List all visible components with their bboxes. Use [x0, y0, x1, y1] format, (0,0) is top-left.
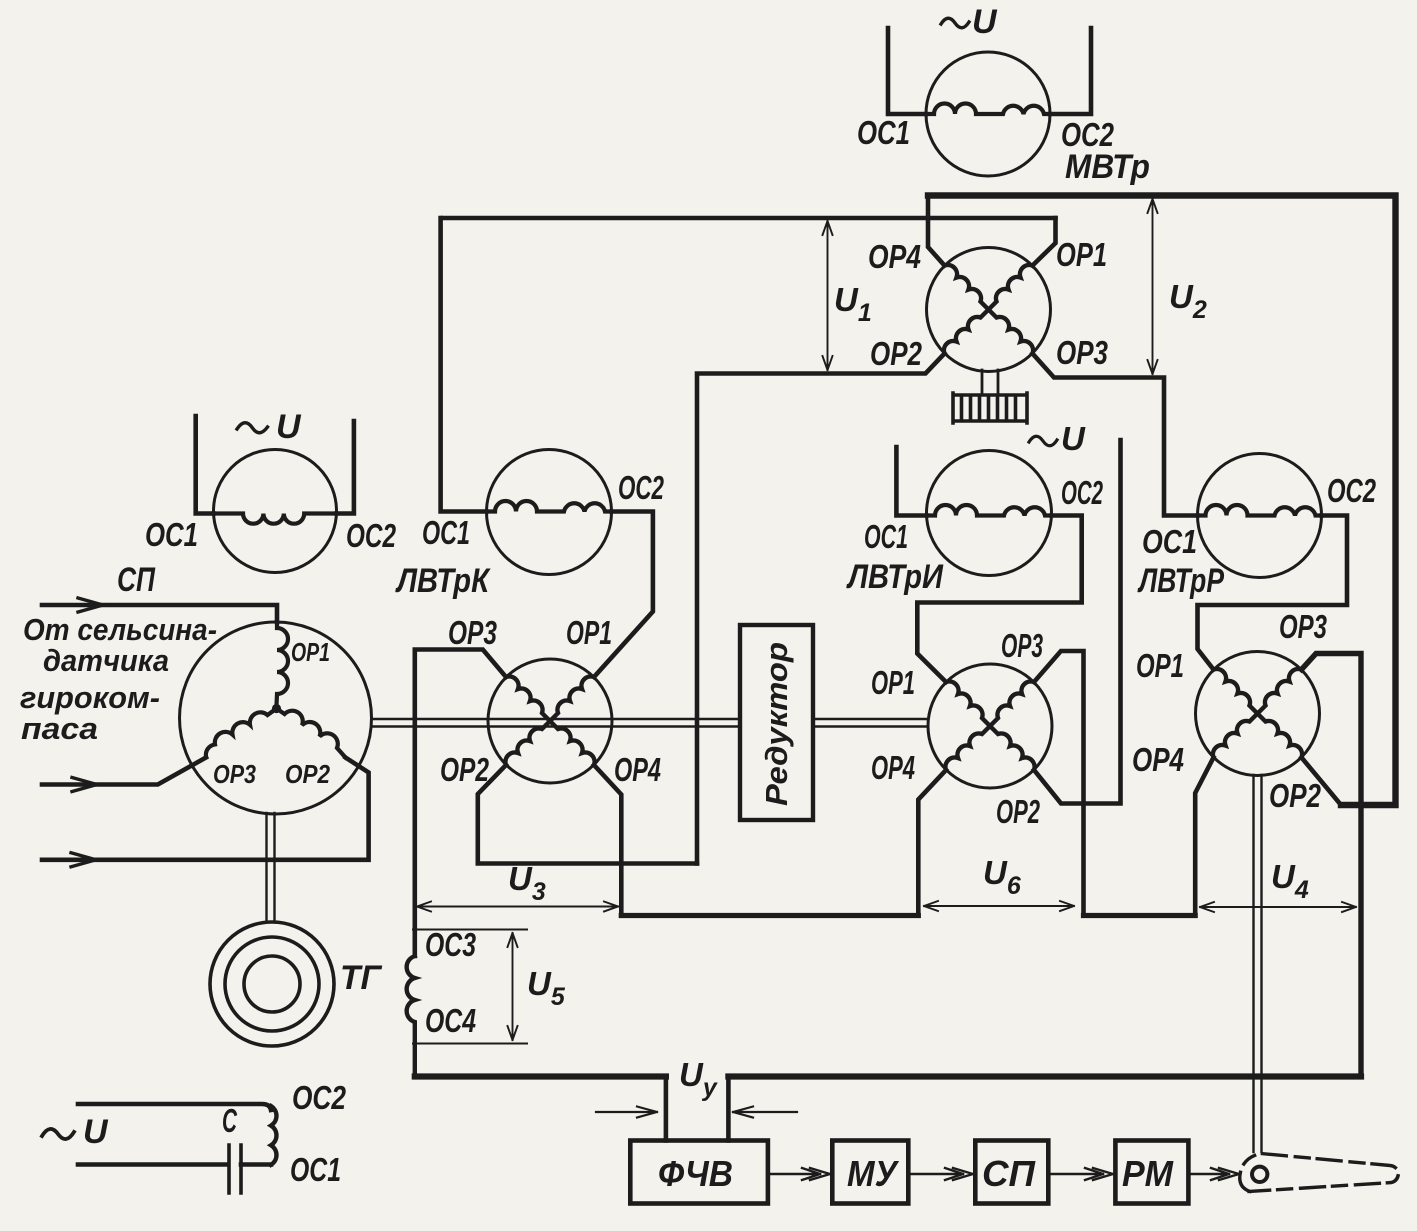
TG middle circle	[225, 937, 319, 1031]
LVTrR rotor crossed windings	[1213, 669, 1302, 758]
svg-text:ТГ: ТГ	[340, 959, 383, 997]
svg-text:ОС1: ОС1	[422, 514, 470, 551]
svg-text:ОР2: ОР2	[870, 335, 922, 372]
wire Uu left vertical into FCHV	[664, 1077, 669, 1141]
svg-text:ОР4: ОР4	[1132, 741, 1184, 778]
wire LVTrI OS2 down to rotor OR1	[917, 516, 1081, 683]
wire MVTr OR1 lead	[1033, 218, 1056, 266]
svg-text:ОР1: ОР1	[566, 614, 612, 651]
arrow Uu left	[596, 1107, 657, 1118]
svg-text:МУ: МУ	[847, 1153, 899, 1194]
TG tachogenerator outer circle	[210, 922, 334, 1046]
LVTrI rotor circle	[928, 664, 1052, 788]
LVTrK stator circle	[487, 450, 612, 575]
mechanical coupling hatched block	[953, 393, 1027, 423]
svg-text:C: C	[222, 1102, 238, 1139]
label ~ supply	[42, 1129, 74, 1139]
svg-text:ОР3: ОР3	[1001, 627, 1043, 664]
dimension U6	[924, 901, 1074, 911]
svg-text:ОР3: ОР3	[1056, 334, 1108, 371]
arrowhead middle input	[72, 778, 97, 792]
svg-text:ОР2: ОР2	[440, 751, 489, 788]
svg-text:ОС2: ОС2	[1061, 474, 1103, 511]
svg-text:ОС1: ОС1	[290, 1151, 341, 1188]
wire Uu right vertical into FCHV	[726, 1077, 731, 1141]
svg-text:ЛВТрИ: ЛВТрИ	[845, 558, 944, 596]
MVTr stator winding OS1-OS2	[926, 104, 1050, 115]
svg-text:ОР4: ОР4	[868, 238, 921, 275]
LVTrI stator circle	[927, 451, 1052, 576]
TG inner circle	[244, 956, 300, 1012]
svg-text:Редуктор: Редуктор	[759, 642, 794, 806]
wire bottom link LVTrI OR3 to LVTrR OR4	[1084, 913, 1196, 918]
LVTrR stator circle	[1198, 454, 1322, 578]
arrow FCHV to MU	[768, 1168, 830, 1180]
tick U5 bottom reference	[413, 1043, 527, 1045]
LVTrR stator winding OS1-OS2	[1198, 505, 1322, 516]
dimension U2	[1148, 199, 1158, 374]
arrowhead bottom input	[71, 853, 96, 867]
svg-text:ОС3: ОС3	[425, 926, 476, 963]
wire supply bottom to capacitor	[78, 1162, 227, 1167]
svg-text:ОС2: ОС2	[618, 469, 664, 506]
svg-text:От сельсина-: От сельсина-	[23, 612, 217, 647]
winding OS3-OS4 on left vertical	[407, 956, 415, 1077]
rudder pivot circle	[1252, 1167, 1267, 1182]
wire selsyn input middle to OR3	[42, 758, 206, 785]
MVTr stator circle	[926, 52, 1050, 176]
dimension U1	[823, 221, 833, 370]
tick U5 top reference	[413, 929, 527, 931]
wire bottom link LVTrK OR4 to LVTrI OR4	[621, 913, 918, 918]
arrow Uu right	[733, 1107, 797, 1118]
selsyn OR3 winding	[206, 709, 277, 757]
svg-text:паса: паса	[21, 711, 98, 746]
label ~U LVTrI	[1029, 420, 1086, 457]
wire LVTrK OS1 from U1-level line	[441, 218, 487, 512]
wire MVTr OS2 supply bracket	[1050, 28, 1091, 114]
wire left stator OS1 bracket	[196, 416, 214, 514]
reduktor box	[740, 625, 813, 820]
LVTrI stator winding OS1-OS2	[927, 505, 1051, 516]
selsyn OR2 winding	[277, 709, 346, 758]
wire LVTrK OR3 lead to left vertical	[415, 650, 506, 957]
wire MVTr OS1 supply bracket	[888, 28, 926, 114]
MVTr rotor circle	[927, 248, 1051, 372]
svg-text:ОР1: ОР1	[871, 664, 915, 701]
svg-text:РМ: РМ	[1122, 1153, 1174, 1194]
svg-text:СП: СП	[982, 1153, 1036, 1194]
svg-text:ОР1: ОР1	[1056, 236, 1107, 273]
wire supply top to TG winding OS2	[78, 1104, 271, 1110]
wire MVTr OR2 lead down-left to x697 vertical	[697, 354, 945, 864]
wire selsyn input bottom to OR2	[42, 758, 369, 860]
wire LVTrI OR3 lead down to bottom link	[1034, 651, 1084, 916]
LVTrK rotor crossed windings	[505, 676, 594, 765]
label ~U left stator	[237, 408, 302, 446]
dimension U3	[417, 902, 618, 912]
wire top bus MVTr OR4 to right edge down to LVTrR OR2	[928, 196, 1396, 806]
svg-text:СП: СП	[117, 561, 156, 599]
dimension U4	[1200, 902, 1356, 912]
svg-text:ОС1: ОС1	[145, 516, 198, 553]
LVTrR rotor circle	[1196, 652, 1320, 776]
svg-text:ОР3: ОР3	[1279, 608, 1327, 645]
svg-text:ОР1: ОР1	[291, 637, 330, 667]
shaft reduktor to LVTrI rotor	[813, 719, 928, 727]
svg-text:U: U	[972, 3, 998, 41]
label ~U MVTr	[941, 3, 998, 41]
svg-text:ОР4: ОР4	[871, 749, 915, 786]
selsyn receiver circle	[180, 622, 372, 814]
RM box	[1115, 1141, 1188, 1204]
arrow MU to SP	[908, 1168, 973, 1180]
svg-text:ФЧВ: ФЧВ	[658, 1153, 733, 1194]
LVTrI rotor crossed windings	[945, 681, 1034, 770]
wire LVTrI OS1 supply bracket	[896, 447, 926, 516]
wire MVTr OR4 lead to top bus	[928, 196, 945, 266]
wire LVTrK OR2 lead to x697 vertical	[478, 765, 697, 864]
svg-text:ЛВТрК: ЛВТрК	[394, 562, 490, 600]
dimension U5	[508, 933, 518, 1040]
svg-text:ОР2: ОР2	[996, 793, 1040, 830]
svg-text:МВТр: МВТр	[1065, 148, 1150, 186]
arrow RM to rudder	[1188, 1168, 1239, 1180]
left supply stator winding	[214, 514, 337, 524]
wire LVTrR OR4 lead down to bottom link	[1195, 758, 1213, 916]
svg-text:ОС1: ОС1	[857, 114, 910, 151]
MVTr rotor crossed windings OR1-OR4	[944, 265, 1033, 354]
svg-text:ОС1: ОС1	[1142, 523, 1197, 560]
wire LVTrR OR3 lead down to bottom bus	[1302, 654, 1362, 1077]
selsyn star node dot	[272, 704, 281, 713]
svg-text:ОС2: ОС2	[1327, 472, 1376, 509]
svg-text:U: U	[83, 1113, 109, 1151]
selsyn OR1 winding vertical	[277, 622, 289, 705]
FCHV box	[630, 1141, 768, 1204]
wire LVTrI OR2 lead to supply stub	[1034, 440, 1121, 804]
svg-text:ОС2: ОС2	[292, 1079, 347, 1116]
wire capacitor to winding OS1	[241, 1162, 271, 1167]
svg-text:ОС1: ОС1	[864, 518, 908, 555]
wire LVTrK OS2 down to rotor OR1	[594, 512, 653, 678]
svg-text:гироком-: гироком-	[20, 680, 160, 715]
arrowhead SP input	[78, 598, 103, 612]
LVTrK stator winding OS1-OS2	[487, 501, 611, 512]
rudder profile dashed	[1240, 1154, 1399, 1192]
LVTrK rotor circle	[488, 659, 612, 783]
wire LVTrR OS2 down to rotor OR1	[1198, 516, 1348, 670]
bottom bus left segment	[415, 1073, 666, 1079]
wire MVTr OR3 lead to LVTrR stator OS1	[1033, 354, 1198, 516]
svg-text:ОР3: ОР3	[213, 759, 256, 789]
svg-text:ОР2: ОР2	[1269, 777, 1321, 814]
SP box	[975, 1141, 1048, 1204]
arrow SP to RM	[1048, 1168, 1113, 1180]
shaft LVTrR rotor to rudder	[1254, 775, 1262, 1152]
wire selsyn input SP line to OR1	[42, 605, 277, 622]
TG excitation winding OS1-OS2	[271, 1106, 276, 1165]
wire LVTrI OR4 lead down to bottom link	[918, 770, 946, 916]
bottom bus right segment	[728, 1073, 1361, 1079]
left supply stator circle	[214, 450, 337, 573]
svg-text:ОС4: ОС4	[425, 1002, 476, 1039]
svg-text:ОР2: ОР2	[285, 759, 330, 789]
wire LVTrK OR4 lead down to bottom link	[594, 765, 621, 916]
shaft MVTr rotor to coupling	[982, 370, 998, 395]
svg-text:U: U	[276, 408, 302, 446]
shaft selsyn to reduktor through LVTrK	[372, 719, 741, 727]
wire U1-level line from LVTrK to OR1	[443, 216, 1056, 221]
MU box	[832, 1141, 908, 1204]
svg-text:ОР1: ОР1	[1136, 647, 1184, 684]
capacitor C plates	[229, 1145, 241, 1193]
svg-text:ОС2: ОС2	[346, 517, 396, 554]
shaft selsyn to TG	[267, 813, 275, 922]
svg-text:ЛВТрР: ЛВТрР	[1137, 562, 1225, 600]
svg-text:U: U	[1061, 420, 1086, 457]
wire left stator OS2 bracket	[337, 421, 354, 514]
svg-text:ОР3: ОР3	[448, 614, 497, 651]
svg-text:ОР4: ОР4	[614, 751, 661, 788]
wire LVTrR OR2 lead to right bus	[1302, 758, 1342, 806]
svg-text:датчика: датчика	[43, 643, 169, 678]
